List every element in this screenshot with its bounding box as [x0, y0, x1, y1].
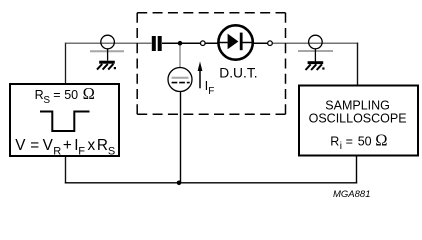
ground left	[97, 61, 116, 70]
wire: top rail left horizontal	[65, 42, 152, 44]
current arrow IF	[198, 62, 203, 89]
open terminal circle (output side)	[268, 41, 273, 46]
pulse generator box	[10, 84, 119, 156]
coax connector left	[90, 35, 124, 60]
dashed test fixture box	[137, 13, 285, 115]
wire: diode to output connector	[253, 42, 273, 44]
wire: bottom rail horizontal	[65, 182, 357, 184]
wire: left box top lead vertical	[65, 43, 67, 84]
wire: current source bottom lead	[180, 92, 182, 183]
svg-text:SAMPLING: SAMPLING	[325, 98, 390, 112]
wire: capacitor to diode (thick signal path)	[162, 42, 219, 44]
pulse waveform icon	[40, 112, 90, 132]
current source IF	[168, 68, 192, 92]
svg-text:D.U.T.: D.U.T.	[219, 66, 257, 81]
open terminal circle (cap side)	[201, 41, 206, 46]
junction node B (bottom rail)	[177, 181, 182, 186]
ground right	[306, 61, 325, 70]
wire: left box bottom lead vertical	[65, 156, 67, 184]
diode D.U.T.	[218, 25, 252, 59]
wire: current source top lead	[179, 44, 181, 68]
junction node A	[178, 41, 183, 46]
capacitor C (DC block)	[152, 36, 162, 51]
wire: top rail right horizontal (DUT output to scope corner)	[273, 42, 359, 44]
coax connector right	[298, 35, 333, 61]
svg-text:MGA881: MGA881	[333, 189, 371, 200]
sampling oscilloscope box	[299, 86, 418, 156]
wire: oscilloscope top lead vertical	[357, 43, 359, 85]
svg-text:OSCILLOSCOPE: OSCILLOSCOPE	[309, 112, 407, 126]
wire: oscilloscope bottom lead vertical	[356, 155, 358, 184]
